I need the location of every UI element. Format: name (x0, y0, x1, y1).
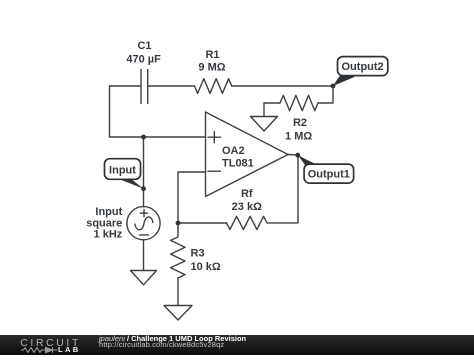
svg-text:1 MΩ: 1 MΩ (285, 131, 312, 143)
ground for R3 (164, 306, 192, 321)
svg-text:470 µF: 470 µF (126, 53, 161, 65)
svg-text:TL081: TL081 (222, 158, 254, 170)
wire from C1 right plate to R1 (148, 85, 195, 87)
CircuitLab logo wordmark LAB (58, 347, 81, 353)
svg-text:R2: R2 (293, 117, 307, 129)
resistor R3 (171, 223, 185, 278)
svg-text:OA2: OA2 (222, 145, 245, 157)
node junction dot at Output2 (331, 84, 336, 89)
pointer wedge of Output1 flag (298, 155, 321, 167)
svg-text:C1: C1 (137, 40, 151, 52)
wire op-amp output stub (288, 154, 298, 157)
svg-text:R1: R1 (205, 49, 219, 61)
svg-text:Output1: Output1 (308, 169, 350, 181)
ground for R2 (251, 117, 278, 132)
svg-text:1 kHz: 1 kHz (94, 229, 123, 241)
Output2 flag box (338, 57, 388, 76)
op-amp minus pin mark (208, 170, 220, 172)
node junction dot at A (top of source) (141, 135, 146, 140)
wire from node A down to source V1 top (143, 137, 145, 207)
wire from C1 left plate to op-amp + input (110, 86, 206, 137)
Input flag box (105, 159, 141, 180)
wire from R3 to ground (177, 278, 179, 306)
ground for source V1 (131, 271, 157, 285)
svg-text:23 kΩ: 23 kΩ (232, 201, 262, 213)
svg-text:R3: R3 (191, 248, 205, 260)
resistor R2 (280, 95, 318, 110)
pointer wedge of Input flag (120, 179, 144, 189)
footer url line (99, 341, 224, 348)
CircuitLab logo wordmark CIRCUIT (20, 339, 81, 349)
wire from junction to Rf (178, 222, 227, 224)
footer title line (99, 335, 246, 342)
node junction dot at Rf/R3 junction (176, 221, 181, 226)
svg-text:Input: Input (109, 164, 136, 176)
voltage source V1 circle (127, 207, 160, 240)
op-amp OA2 triangle (206, 112, 289, 197)
voltage source V1 plus mark (140, 210, 147, 217)
wire op-amp minus input (178, 172, 206, 223)
svg-text:10 kΩ: 10 kΩ (191, 261, 221, 273)
resistor Rf (227, 216, 268, 229)
svg-text:Input: Input (95, 206, 122, 218)
voltage source V1 minus mark (140, 234, 149, 236)
wire from source V1 bottom to ground (143, 240, 145, 271)
voltage source V1 sine wave (135, 217, 153, 230)
wire from node Output2 down to R2 (318, 86, 333, 103)
CircuitLab logo schematic glyph (resistor + diode) (20, 337, 90, 355)
footer bar (0, 335, 474, 355)
wire from R2 to ground (264, 103, 280, 117)
resistor R1 (195, 79, 232, 94)
svg-text:9 MΩ: 9 MΩ (198, 62, 225, 74)
capacitor C1 plates (141, 69, 148, 103)
svg-text:Output2: Output2 (342, 61, 384, 73)
svg-text:Rf: Rf (241, 188, 253, 200)
node junction dot at Input flag tip (141, 186, 146, 191)
Output1 flag box (304, 164, 354, 183)
wire from Rf up to node Output1 (267, 155, 298, 223)
op-amp plus pin mark (208, 132, 221, 143)
svg-text:square: square (86, 217, 122, 229)
node junction dot at op-amp output (295, 153, 300, 158)
pointer wedge of Output2 flag (333, 75, 355, 86)
wire from R1 to node Output2 (232, 85, 333, 87)
